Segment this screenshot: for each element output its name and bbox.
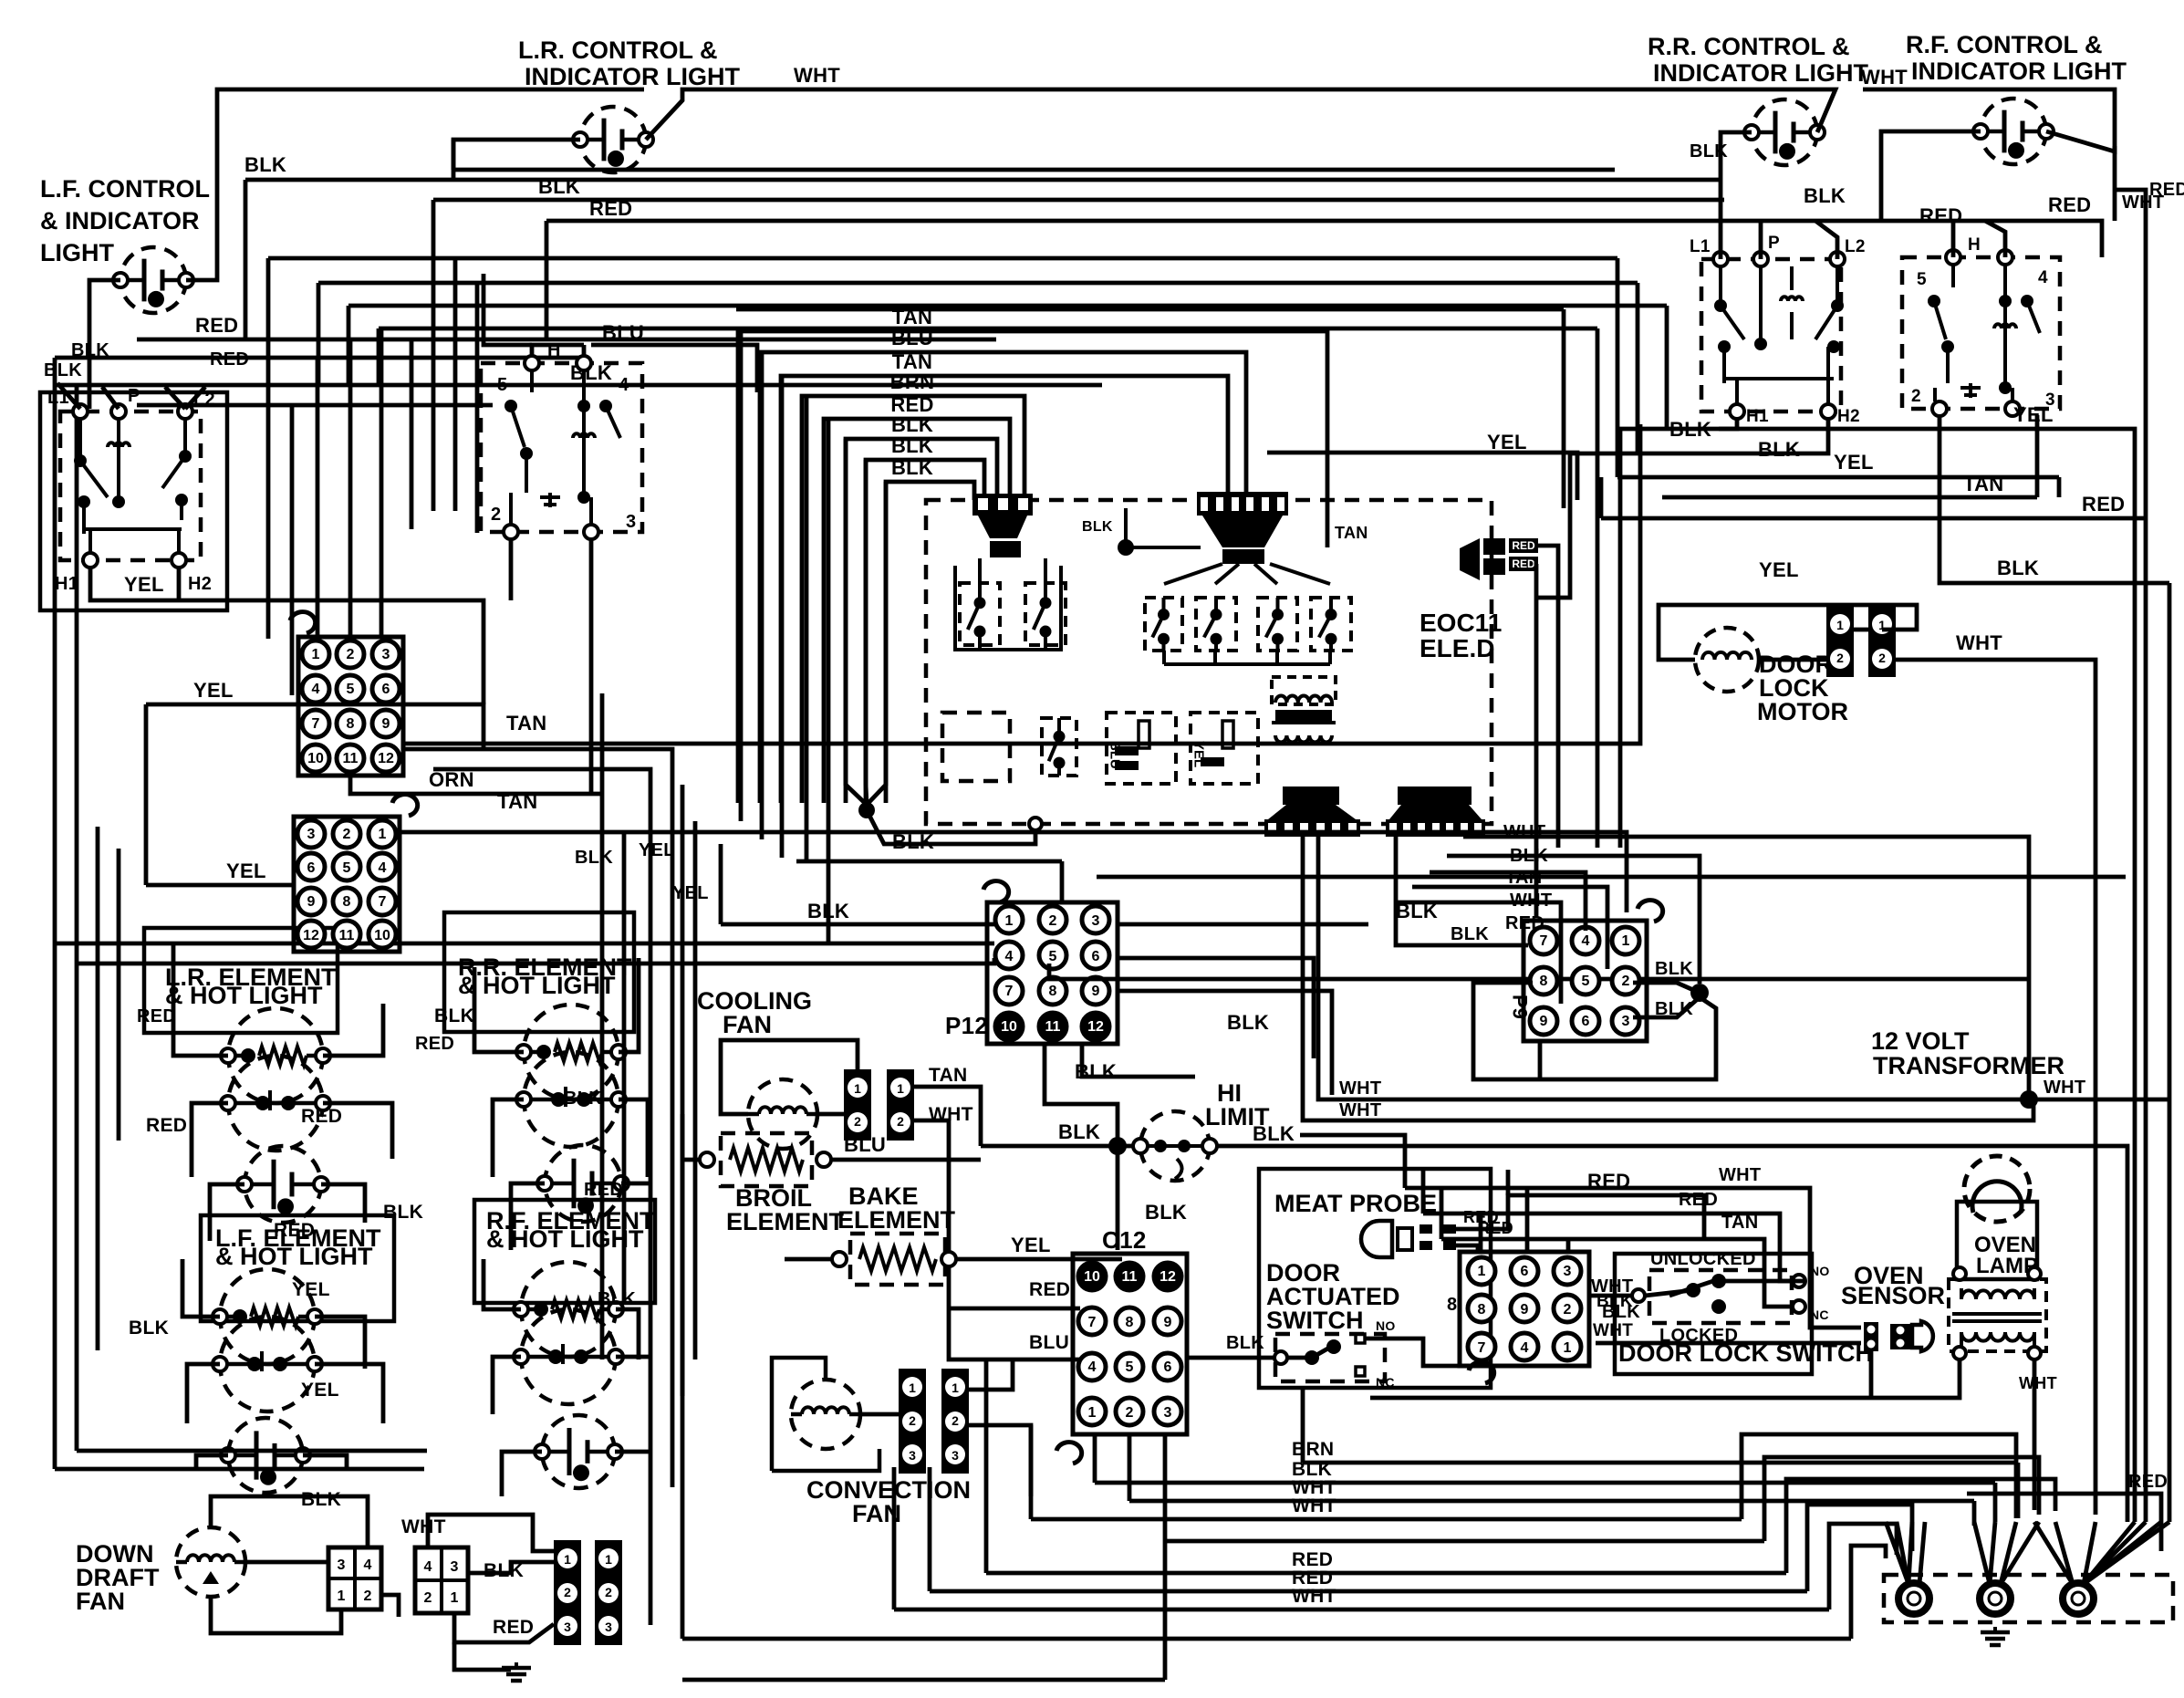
svg-text:RED: RED — [274, 1220, 315, 1241]
wire — [1254, 564, 1277, 584]
wire — [780, 376, 785, 858]
wire funnel to ring — [2084, 1522, 2161, 1584]
wire — [1951, 221, 1956, 257]
wire DD top — [211, 1496, 368, 1547]
svg-text:5: 5 — [343, 860, 351, 876]
connector DD 4pin A — [328, 1547, 381, 1609]
door actuated switch dashed — [1275, 1334, 1385, 1381]
wire — [615, 1450, 650, 1454]
terminal strip DD 2 — [595, 1540, 622, 1645]
wire P9 loop — [1473, 983, 1716, 1079]
wire — [616, 1309, 639, 1359]
wire funnel to ring — [2084, 1522, 2146, 1584]
svg-text:BLK: BLK — [538, 175, 580, 198]
convection fan frame — [772, 1358, 826, 1471]
svg-text:P: P — [1768, 234, 1780, 253]
wire BLK H2 — [1536, 419, 1828, 598]
wire lamp drop — [2033, 1359, 2037, 1510]
svg-text:6: 6 — [1164, 1359, 1172, 1375]
connector P12 — [983, 881, 1118, 1044]
label L.R. ELEMENT & HOT LIGHT — [165, 964, 337, 1009]
svg-text:10: 10 — [307, 751, 324, 766]
wire BLK to P12-1 — [721, 922, 994, 927]
indicator lamp L.F. — [113, 247, 193, 313]
element L.F. — [213, 1269, 322, 1412]
wire BLK R.R. lamp — [1721, 132, 1752, 221]
switch R.R. dashed box — [1701, 259, 1841, 411]
relay K2 — [1025, 583, 1066, 645]
wire BLK long — [1097, 875, 2126, 880]
broil element resistor — [730, 1148, 803, 1172]
svg-text:YEL: YEL — [1759, 558, 1799, 581]
ground down draft — [502, 1662, 531, 1681]
indicator lamp R.R. — [1744, 99, 1825, 165]
wire bus — [433, 198, 1724, 203]
element R.F. — [514, 1262, 623, 1404]
terminal block convection 2 — [941, 1369, 969, 1474]
svg-text:BRN: BRN — [890, 370, 935, 393]
svg-text:1: 1 — [1005, 913, 1014, 929]
svg-text:YEL: YEL — [124, 573, 164, 596]
wire riser — [1525, 1188, 1530, 1252]
wire RED right — [2115, 190, 2146, 516]
ring terminal — [2063, 1583, 2094, 1614]
wire funnel to ring — [1886, 1522, 1908, 1584]
svg-text:BRN: BRN — [1292, 1439, 1334, 1460]
svg-text:2: 2 — [491, 505, 501, 525]
svg-text:FAN: FAN — [76, 1588, 125, 1615]
wire — [1665, 306, 1669, 429]
svg-text:WHT: WHT — [2019, 1374, 2057, 1392]
EOC transformer 1 core — [990, 541, 1021, 557]
wire feeder — [380, 328, 384, 637]
wire element LF left — [182, 1259, 220, 1317]
svg-text:BLK: BLK — [1655, 959, 1693, 979]
wire bus — [318, 281, 1638, 286]
terminal N — [525, 356, 539, 370]
svg-text:RED: RED — [210, 349, 249, 370]
lock switch dashed box — [1649, 1270, 1792, 1323]
wire — [978, 645, 982, 650]
wire BLK bundle — [846, 439, 997, 803]
relay K5 — [1258, 598, 1297, 651]
wire WHT right — [2029, 1098, 2169, 1102]
svg-text:2: 2 — [343, 827, 351, 842]
switch R.F. internals — [1928, 265, 2040, 401]
wire funnel to ring — [2084, 1522, 2096, 1584]
svg-text:H2: H2 — [1837, 407, 1860, 426]
svg-text:2: 2 — [605, 1585, 612, 1599]
wire — [760, 352, 764, 839]
wire bottom boundary — [55, 1467, 424, 1472]
svg-text:BLK: BLK — [891, 413, 933, 436]
svg-text:P9: P9 — [1509, 995, 1532, 1019]
wire feeder — [290, 405, 295, 695]
relay K6 — [1311, 598, 1351, 651]
svg-text:BLK: BLK — [301, 1489, 341, 1510]
wire BLK P9-2 — [1633, 983, 1700, 993]
svg-text:RED: RED — [1512, 539, 1535, 552]
svg-text:2: 2 — [1911, 387, 1921, 406]
component box YEL/BLK — [1191, 713, 1258, 784]
svg-text:L.F. CONTROL: L.F. CONTROL — [40, 175, 210, 203]
terminal — [941, 1252, 956, 1266]
terminal — [700, 1152, 714, 1167]
svg-text:6: 6 — [307, 860, 316, 876]
wire RED to P9-6 — [1394, 902, 1561, 1004]
svg-text:INDICATOR LIGHT: INDICATOR LIGHT — [1653, 59, 1868, 87]
svg-text:R.F. CONTROL &: R.F. CONTROL & — [1906, 31, 2103, 58]
label R.F. ELEMENT & HOT LIGHT — [486, 1207, 655, 1253]
wire — [984, 1359, 989, 1573]
label DOOR LOCK MOTOR — [1757, 651, 1848, 725]
wire bus RED — [1615, 219, 1881, 224]
element box R.R. — [444, 912, 634, 1032]
wire left boundary — [53, 788, 57, 1469]
svg-text:SWITCH: SWITCH — [1266, 1307, 1363, 1334]
svg-text:1: 1 — [1622, 933, 1630, 949]
wire — [2035, 415, 2040, 497]
wire WHT long 2 — [1303, 837, 2033, 1120]
terminal — [584, 525, 598, 539]
wire stub — [185, 387, 205, 409]
svg-text:H1: H1 — [55, 574, 78, 594]
svg-text:2: 2 — [564, 1585, 571, 1599]
wire bus — [55, 942, 994, 946]
wire wrap 3 — [1786, 1479, 2055, 1573]
svg-text:L1: L1 — [1690, 237, 1711, 256]
terminal H2 — [1821, 404, 1836, 419]
terminal H1 — [1730, 404, 1744, 419]
svg-text:BLK: BLK — [1226, 1333, 1264, 1353]
svg-text:BLK: BLK — [44, 360, 82, 380]
wire — [1118, 958, 1314, 1058]
wire left boundary — [75, 807, 79, 1451]
wire wrap 5 — [1829, 1524, 1897, 1609]
wire funnel to ring — [2034, 1522, 2073, 1584]
wire — [1636, 283, 1640, 453]
broil element box — [721, 1133, 812, 1186]
wire WHT long bus — [1031, 1517, 1742, 1522]
svg-text:10: 10 — [1084, 1269, 1100, 1285]
wire — [619, 958, 639, 1052]
wire — [1118, 922, 1368, 927]
wire lever — [1669, 1279, 1719, 1296]
connector P9 — [1524, 901, 1663, 1041]
label DOOR ACTUATED SWITCH — [1266, 1259, 1399, 1334]
convection fan motor — [791, 1380, 860, 1449]
terminal L2 — [1830, 252, 1845, 266]
oven lamp bulb — [1964, 1156, 2030, 1222]
wire bus — [546, 219, 1615, 224]
wire — [928, 1467, 932, 1591]
svg-text:INDICATOR LIGHT: INDICATOR LIGHT — [1911, 57, 2127, 85]
terminal block convection 1 — [899, 1369, 926, 1474]
svg-text:11: 11 — [1122, 1269, 1138, 1285]
svg-text:& HOT LIGHT: & HOT LIGHT — [165, 982, 323, 1009]
wire feeder — [410, 339, 414, 529]
svg-text:YEL: YEL — [1834, 451, 1874, 474]
svg-text:7: 7 — [1478, 1340, 1486, 1356]
svg-text:WHT: WHT — [401, 1516, 446, 1537]
connector B — [294, 795, 418, 952]
wire vertical mid 2 — [622, 832, 627, 1305]
terminal — [832, 1252, 847, 1266]
svg-text:YEL: YEL — [226, 859, 266, 882]
wire — [1759, 658, 1826, 662]
wire — [347, 306, 351, 385]
wire — [1164, 564, 1222, 584]
bake element resistor — [859, 1247, 936, 1271]
svg-text:8: 8 — [343, 894, 351, 910]
wire — [1815, 221, 1837, 259]
label CONVECTION FAN — [806, 1476, 971, 1527]
svg-text:WHT: WHT — [1292, 1495, 1336, 1516]
oven lamp inner — [1972, 1182, 2022, 1213]
wire TAN from connector A — [403, 424, 1640, 744]
svg-text:TRANSFORMER: TRANSFORMER — [1873, 1052, 2064, 1079]
wire — [1759, 221, 1763, 259]
switch R.F. dashed box — [1902, 257, 2060, 409]
wire — [1093, 1434, 1097, 1483]
wire wrap 1 — [1742, 1434, 2016, 1519]
svg-text:TAN: TAN — [506, 712, 546, 734]
wire RED long bus — [986, 1571, 1786, 1576]
wire BLK — [1045, 1044, 1118, 1146]
svg-text:RED: RED — [1029, 1279, 1070, 1300]
wire — [1275, 651, 1279, 664]
wire WHT down right — [2113, 146, 2117, 221]
svg-text:2: 2 — [364, 1589, 372, 1604]
EOC connector strip 1 — [972, 494, 1033, 516]
wire BLK to P9-7 — [1396, 837, 1528, 945]
wire — [511, 1183, 545, 1250]
svg-text:4: 4 — [1005, 949, 1014, 964]
svg-text:LIGHT: LIGHT — [40, 239, 114, 266]
svg-text:1: 1 — [854, 1081, 861, 1096]
wire BLK — [1447, 856, 1700, 984]
svg-text:RED: RED — [1512, 557, 1535, 570]
svg-text:BLK: BLK — [1758, 438, 1800, 461]
svg-text:R.R. CONTROL &: R.R. CONTROL & — [1648, 33, 1850, 60]
svg-text:12: 12 — [303, 928, 319, 943]
svg-text:MOTOR: MOTOR — [1757, 698, 1848, 725]
terminal H1 — [83, 553, 98, 568]
svg-text:8: 8 — [1447, 1295, 1457, 1315]
svg-text:1: 1 — [312, 647, 320, 662]
svg-text:4: 4 — [364, 1557, 372, 1573]
wire — [452, 140, 456, 180]
contact — [1686, 1283, 1700, 1297]
relay box empty — [942, 713, 1010, 781]
svg-text:INDICATOR LIGHT: INDICATOR LIGHT — [525, 63, 740, 90]
terminal — [2028, 1347, 2041, 1359]
wire element RR left — [474, 967, 524, 1052]
svg-text:BLK: BLK — [1082, 519, 1113, 535]
wire — [321, 1184, 365, 1223]
svg-text:1: 1 — [1478, 1264, 1486, 1279]
wire BLK merge — [866, 460, 867, 805]
svg-text:WHT: WHT — [1956, 631, 2002, 654]
wire funnel to ring — [2001, 1522, 2016, 1584]
wire vertical — [719, 844, 723, 924]
wire WHT — [914, 1120, 949, 1308]
EOC bottom transformer L bar — [1283, 786, 1339, 805]
svg-text:TAN: TAN — [929, 1065, 968, 1086]
wire — [1616, 258, 1620, 477]
switch L.F. dashed box — [60, 411, 201, 560]
wire YEL — [1617, 475, 2059, 480]
svg-text:WHT: WHT — [1339, 1078, 1381, 1099]
svg-text:9: 9 — [382, 716, 390, 732]
wire BLK — [468, 1562, 554, 1573]
wire riser — [1479, 1214, 1483, 1252]
wire — [1972, 1501, 1977, 1526]
svg-text:RED: RED — [2149, 180, 2184, 200]
wire WHT right edge long — [1896, 660, 2096, 1515]
wire element LR left — [173, 943, 228, 1056]
wire — [969, 1359, 1013, 1390]
wire feeder — [453, 258, 458, 511]
wire WHT long bus — [894, 1608, 1829, 1612]
wire — [509, 539, 514, 600]
hot light lamp R.R. — [537, 1145, 629, 1222]
svg-text:11: 11 — [1045, 1019, 1061, 1035]
svg-text:6: 6 — [1582, 1014, 1590, 1029]
EOC transformer 2 core — [1222, 549, 1264, 564]
svg-text:EOC11: EOC11 — [1420, 609, 1502, 637]
wire — [1328, 651, 1332, 664]
label 12 VOLT TRANSFORMER — [1871, 1027, 2064, 1079]
svg-text:WHT: WHT — [1861, 66, 1908, 89]
wire L.R. lamp left — [453, 140, 580, 170]
svg-text:6: 6 — [1092, 949, 1100, 964]
svg-text:3: 3 — [909, 1448, 916, 1463]
label L.R. CONTROL & INDICATOR LIGHT — [518, 36, 740, 90]
wire WHT long 1 — [1318, 837, 2029, 1099]
svg-text:ELEMENT: ELEMENT — [837, 1206, 956, 1234]
wire broil left — [681, 1114, 685, 1396]
svg-text:11: 11 — [343, 751, 359, 766]
svg-text:5: 5 — [1582, 974, 1590, 989]
svg-text:BLK: BLK — [1253, 1122, 1295, 1145]
wire — [1301, 1389, 1305, 1463]
wire YEL — [956, 1257, 1122, 1262]
svg-text:YEL: YEL — [1487, 431, 1527, 453]
svg-text:1: 1 — [1564, 1340, 1572, 1356]
terminal — [1029, 818, 1042, 830]
wire feeder — [475, 283, 480, 533]
svg-text:3: 3 — [451, 1559, 459, 1575]
wire WHT — [428, 1515, 554, 1551]
terminal — [577, 356, 591, 370]
switch box L.F. boundary — [40, 392, 227, 610]
terminal — [2005, 401, 2020, 416]
svg-text:2: 2 — [952, 1413, 959, 1428]
svg-text:1: 1 — [1088, 1405, 1097, 1421]
terminal C — [1632, 1289, 1645, 1302]
svg-text:H: H — [1968, 235, 1981, 255]
wire relay loop — [955, 566, 1061, 650]
wire BRN bundle — [802, 396, 1024, 803]
indicator lamp R.F. — [1973, 99, 2054, 164]
wire TAN — [1662, 495, 2037, 500]
label L.F. CONTROL & INDICATOR LIGHT — [40, 175, 210, 266]
svg-text:BLK: BLK — [891, 434, 933, 457]
oven lamp transformer box — [1949, 1279, 2046, 1351]
wire — [619, 1099, 648, 1177]
wire bus — [268, 256, 1617, 261]
connector C12 — [1056, 1254, 1187, 1464]
svg-text:5: 5 — [497, 375, 507, 395]
relay K3 — [1145, 598, 1182, 651]
svg-text:1: 1 — [379, 827, 387, 842]
wire funnel to ring — [1990, 1522, 1995, 1584]
svg-text:L.R. CONTROL &: L.R. CONTROL & — [518, 36, 718, 64]
svg-text:8: 8 — [1049, 984, 1057, 999]
wire BLK — [981, 1144, 1133, 1149]
wire — [177, 568, 182, 600]
wire — [1118, 991, 1332, 1095]
wire — [317, 283, 321, 385]
svg-text:BLK: BLK — [564, 1089, 602, 1109]
wire — [266, 258, 271, 385]
ring terminal — [1898, 1583, 1929, 1614]
svg-text:MEAT PROBE: MEAT PROBE — [1274, 1190, 1437, 1217]
wire — [978, 558, 982, 583]
EOC bottom connector strip L — [1264, 819, 1360, 837]
wire — [1215, 564, 1239, 584]
wire — [315, 1364, 383, 1423]
wire — [192, 1103, 228, 1177]
wire — [817, 1112, 844, 1117]
svg-text:1: 1 — [909, 1380, 916, 1395]
wire BLK right long — [1217, 1146, 2127, 1522]
switch L.R. internals — [504, 370, 620, 525]
terminal — [816, 1152, 831, 1167]
wire to P12-4 — [77, 958, 994, 964]
wire stub — [57, 383, 80, 409]
wire — [1287, 1356, 1312, 1360]
wire — [545, 221, 549, 339]
svg-text:BLU: BLU — [844, 1133, 886, 1156]
wire wrap 2 — [1764, 1457, 2039, 1541]
wire BLU — [532, 345, 584, 356]
svg-text:WHT: WHT — [1719, 1165, 1761, 1185]
EOC transformer 1 body — [978, 516, 1027, 538]
terminal L1 — [1713, 252, 1728, 266]
svg-text:& INDICATOR: & INDICATOR — [40, 207, 200, 234]
wire BLU right — [591, 345, 757, 392]
wire — [969, 1425, 1031, 1496]
svg-text:TAN: TAN — [1335, 524, 1368, 542]
junction — [1108, 1137, 1127, 1155]
terminal — [1998, 250, 2012, 265]
svg-text:9: 9 — [1164, 1315, 1172, 1330]
wire — [1538, 1041, 1543, 1079]
wire — [1162, 651, 1166, 664]
label L.F. ELEMENT & HOT LIGHT — [215, 1224, 381, 1270]
svg-text:YEL: YEL — [672, 883, 709, 903]
wire left edge 2 — [75, 385, 79, 807]
wire — [1440, 1188, 1444, 1239]
terminal NC — [1793, 1300, 1805, 1313]
wire ORN — [350, 776, 602, 794]
ground symbol — [1981, 1627, 2010, 1645]
EOC 12V transformer — [1272, 677, 1336, 742]
element box L.F. — [201, 1215, 394, 1321]
svg-text:RED: RED — [195, 314, 238, 337]
